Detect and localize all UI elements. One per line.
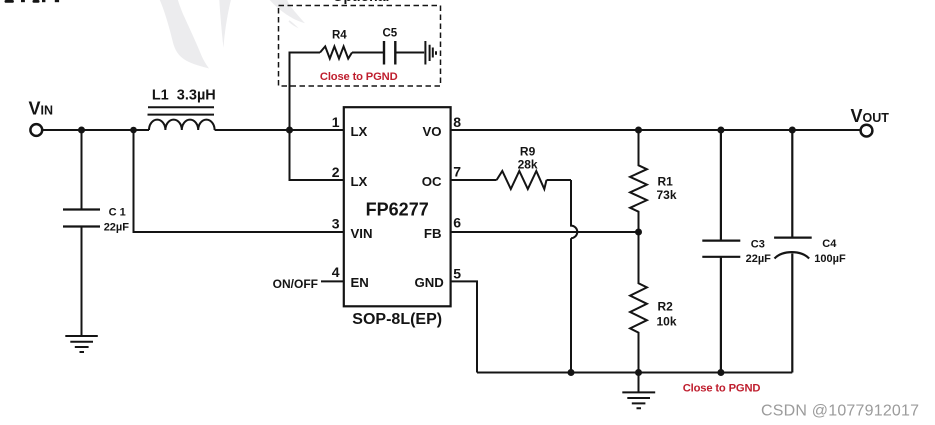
svg-text:VO: VO — [422, 124, 441, 139]
svg-text:R1: R1 — [658, 175, 674, 189]
svg-text:73k: 73k — [657, 188, 677, 202]
svg-text:Optional: Optional — [333, 0, 390, 4]
junction C3 top — [717, 127, 724, 134]
wire pin1 LX — [290, 129, 344, 131]
wire C1 top — [81, 130, 83, 210]
resistor R9 — [497, 171, 547, 189]
wire pin8 VO output rail — [451, 129, 861, 131]
wire C1 to ground — [81, 227, 83, 337]
wire bottom ground rail — [477, 372, 792, 374]
junction C1 node — [78, 127, 85, 134]
ground (rotated) in optional box — [425, 41, 436, 65]
svg-text:C4: C4 — [822, 238, 837, 250]
background watermark shapes (decorative) — [160, 0, 305, 69]
capacitor C4 (polarized) — [774, 130, 812, 373]
svg-text:7: 7 — [453, 164, 461, 180]
IC U1 FP6277 body — [344, 107, 451, 306]
wire VIN to inductor — [43, 129, 150, 131]
wire pin5 GND — [451, 281, 477, 372]
junction R9 riser bottom — [568, 369, 575, 376]
svg-text:4: 4 — [332, 264, 340, 280]
svg-text:R9: R9 — [520, 145, 536, 159]
svg-text:VIN: VIN — [351, 226, 373, 241]
svg-text:L1 3.3µH: L1 3.3µH — [152, 88, 216, 104]
svg-text:28k: 28k — [518, 158, 538, 172]
svg-text:LX: LX — [351, 174, 368, 189]
wire VIN branch to pin3 — [134, 130, 344, 232]
wire pin6 FB to divider — [451, 231, 639, 233]
terminal VOUT — [861, 125, 873, 137]
svg-text:22µF: 22µF — [746, 253, 772, 265]
junction C3 bottom — [717, 369, 724, 376]
svg-text:C 1: C 1 — [109, 206, 126, 218]
wire pin2 LX branch — [290, 130, 344, 180]
terminal VIN — [30, 124, 42, 136]
svg-text:LX: LX — [351, 124, 368, 139]
junction R2 bottom — [635, 369, 642, 376]
svg-text:10k: 10k — [657, 314, 677, 328]
svg-text:CSDN @1077912017: CSDN @1077912017 — [761, 402, 919, 419]
ground below C1 — [65, 336, 98, 352]
wire R9 riser with hop over FB wire — [571, 180, 577, 373]
svg-text:ON/OFF: ON/OFF — [273, 277, 318, 291]
junction VIN-pin3 branch — [130, 127, 137, 134]
resistor R2 — [630, 232, 647, 373]
wire pin4 EN stub — [321, 280, 344, 282]
svg-text:1: 1 — [332, 114, 340, 130]
svg-text:GND: GND — [414, 275, 443, 290]
capacitor C3 — [702, 130, 740, 373]
svg-text:22µF: 22µF — [104, 222, 130, 234]
svg-text:R4: R4 — [332, 29, 347, 41]
svg-text:3: 3 — [332, 215, 340, 231]
junction FB node — [635, 229, 642, 236]
svg-text:VOUT: VOUT — [851, 106, 890, 126]
resistor R4 — [320, 46, 352, 58]
wire L1 to LX junction — [215, 129, 290, 131]
capacitor C1 — [63, 210, 100, 227]
resistor R1 — [630, 130, 647, 232]
svg-text:R2: R2 — [658, 300, 674, 314]
junction R1 top — [635, 127, 642, 134]
wire R9 to riser — [547, 179, 572, 181]
junction LX node — [286, 127, 293, 134]
svg-text:8: 8 — [453, 114, 461, 130]
wire pin7 OC — [451, 179, 497, 181]
svg-text:SOP-8L(EP): SOP-8L(EP) — [352, 311, 442, 328]
ground below R2 — [622, 373, 655, 409]
optional region dashed box — [279, 6, 441, 87]
svg-text:6: 6 — [453, 215, 461, 231]
inductor L1 — [149, 120, 215, 130]
svg-text:Close to PGND: Close to PGND — [320, 71, 398, 83]
svg-text:EN: EN — [351, 275, 369, 290]
svg-text:FP6277: FP6277 — [366, 200, 429, 220]
svg-text:FB: FB — [424, 226, 442, 241]
junction C4 top — [789, 127, 796, 134]
wire C5 to ground — [395, 52, 424, 54]
wire R4 to C5 — [352, 52, 384, 54]
svg-text:2: 2 — [332, 164, 340, 180]
capacitor C5 — [384, 41, 395, 65]
wire R4 branch riser — [290, 53, 321, 131]
svg-text:OC: OC — [422, 174, 442, 189]
svg-text:C3: C3 — [751, 239, 765, 251]
svg-text:VIN: VIN — [29, 98, 54, 118]
svg-text:Close to PGND: Close to PGND — [683, 383, 761, 395]
svg-text:100µF: 100µF — [814, 253, 846, 265]
svg-text:C5: C5 — [382, 27, 397, 39]
clipped title text fragments at very top (decorative) — [5, 0, 60, 3]
svg-text:5: 5 — [453, 265, 461, 281]
